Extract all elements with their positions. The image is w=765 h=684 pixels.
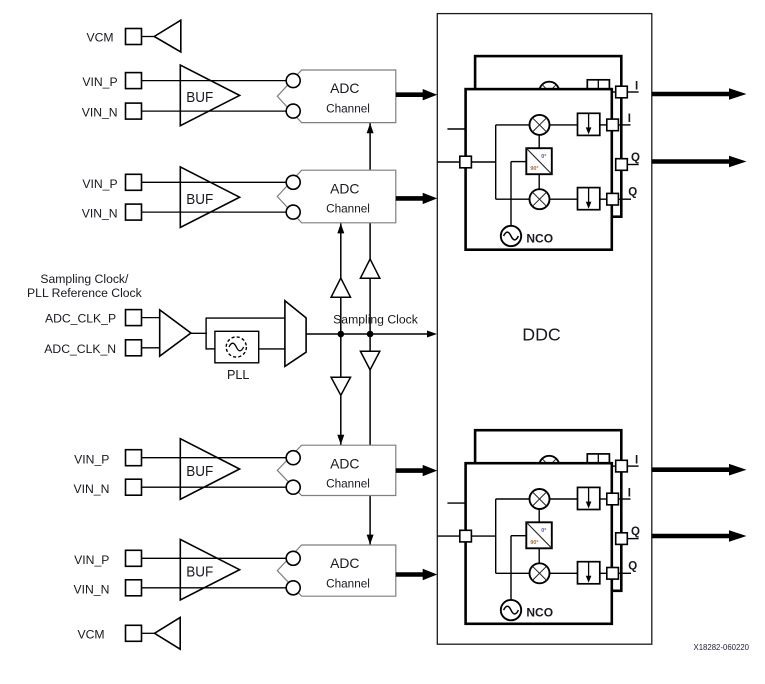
DDC bottom wire I mixer to filter — [550, 498, 578, 500]
thick arrow DDC Q out top — [652, 159, 731, 164]
DDC bottom I port square — [607, 493, 619, 505]
svg-text:0°: 0° — [541, 528, 546, 534]
wire VIN_P to ADC1 — [142, 80, 294, 82]
svg-text:VIN_P: VIN_P — [74, 553, 109, 567]
wire clock vertical net A (x=341) from ADC2 to ADC3 — [340, 223, 342, 445]
DDC top wire Q branch — [496, 198, 530, 200]
svg-text:VIN_P: VIN_P — [74, 452, 109, 466]
DDC top wire I filter to port — [600, 124, 607, 126]
ADC3 input circle N — [286, 480, 300, 494]
svg-text:BUF: BUF — [186, 463, 213, 480]
DDC top front channel box — [466, 89, 612, 250]
DDC bottom back Q port square — [616, 533, 628, 545]
svg-text:VIN_N: VIN_N — [73, 482, 109, 496]
DDC bottom wire I filter to port — [600, 498, 607, 500]
svg-text:X18282-060220: X18282-060220 — [694, 643, 750, 652]
DDC bottom back wire I out — [627, 465, 638, 467]
thick arrow ADC2 to DDC — [396, 196, 425, 201]
DDC bottom back channel input stub — [447, 502, 478, 504]
wire VCM top — [142, 36, 155, 38]
DDC outer box — [437, 14, 652, 645]
DDC bottom back I port square — [616, 460, 628, 472]
svg-text:ADC: ADC — [330, 181, 360, 196]
input pad square VIN_N 4 — [126, 580, 142, 596]
wire VIN_N to ADC4 — [142, 587, 294, 589]
clock buffer down triangle net A — [331, 377, 350, 395]
DDC top wire I branch — [496, 124, 530, 126]
thick arrow DDC I out top — [652, 92, 731, 97]
ADC1 input circle N — [286, 104, 300, 118]
DDC top I mixer — [530, 115, 550, 135]
ADC2 input circle N — [286, 205, 300, 219]
svg-text:ADC_CLK_P: ADC_CLK_P — [45, 312, 116, 326]
svg-text:PLL Reference Clock: PLL Reference Clock — [27, 286, 143, 300]
DDC top wire Q out — [618, 198, 631, 200]
DDC top Q port square — [607, 193, 619, 205]
svg-text:Q: Q — [628, 187, 637, 199]
DDC top wire I mixer to filter — [550, 124, 578, 126]
wire VIN_N to ADC1 — [142, 110, 294, 112]
svg-text:ADC: ADC — [330, 81, 360, 96]
DDC top back I filter — [587, 80, 609, 102]
buffer VCM bottom triangle — [155, 617, 181, 649]
svg-text:Sampling Clock/: Sampling Clock/ — [40, 272, 129, 286]
ADC channel 3 box — [277, 445, 396, 495]
mux clock select — [285, 301, 306, 367]
buffer clock input triangle — [160, 310, 191, 356]
input pad square VIN_P 2 — [126, 174, 142, 190]
DDC bottom back mixer — [539, 456, 559, 476]
thick arrow ADC3 to DDC — [396, 468, 425, 473]
svg-text:Channel: Channel — [326, 202, 370, 216]
buffer VCM top triangle — [154, 20, 181, 52]
DDC bottom wire phase to Q mixer — [538, 548, 540, 563]
wire VIN_N to ADC2 — [142, 211, 294, 213]
DDC bottom I mixer — [530, 489, 550, 509]
DDC top back wire I out — [627, 91, 638, 93]
buffer amplifier BUF4 — [180, 539, 239, 600]
junction dot A — [338, 331, 345, 338]
wire pll bypass top — [206, 317, 285, 319]
wire VIN_P to ADC4 — [142, 557, 294, 559]
thick arrow DDC I out bottom — [652, 467, 731, 472]
DDC bottom Q mixer — [530, 563, 550, 583]
DDC bottom wire I branch — [496, 498, 530, 500]
input pad square VCM top — [126, 29, 142, 45]
svg-text:90°: 90° — [530, 540, 538, 546]
svg-text:VIN_N: VIN_N — [82, 207, 118, 221]
DDC top wire Q filter to port — [600, 198, 607, 200]
wire into PLL — [206, 348, 215, 350]
DDC top back wire filter to I port — [609, 91, 615, 93]
svg-text:Q: Q — [628, 561, 637, 573]
svg-text:I: I — [635, 80, 638, 92]
svg-text:Q: Q — [631, 152, 640, 164]
input pad square VIN_P 3 — [126, 450, 142, 466]
DDC top back channel box — [475, 56, 621, 217]
DDC bottom wire Q out — [618, 572, 631, 574]
wire ADC_CLK_P — [142, 317, 160, 319]
svg-text:DDC: DDC — [522, 325, 561, 345]
input pad square VCM bottom — [126, 625, 142, 641]
svg-text:I: I — [628, 113, 631, 125]
wire VIN_P to ADC2 — [142, 181, 294, 183]
buffer amplifier BUF3 — [180, 439, 239, 500]
wire ADC_CLK_N — [142, 347, 160, 349]
svg-text:Q: Q — [631, 526, 640, 538]
DDC bottom wire Q branch — [496, 572, 530, 574]
DDC bottom I filter — [578, 487, 600, 509]
DDC bottom wire Q filter to port — [600, 572, 607, 574]
DDC top wire I out — [618, 124, 630, 126]
DDC top I port square — [607, 119, 619, 131]
wire pll bypass vertical — [205, 318, 207, 350]
svg-text:ADC: ADC — [330, 456, 360, 471]
thick arrow DDC Q out bottom — [652, 534, 731, 539]
DDC top back wire Q out — [627, 164, 638, 166]
DDC bottom front channel box — [466, 463, 612, 624]
svg-text:NCO: NCO — [526, 231, 553, 245]
svg-text:NCO: NCO — [526, 605, 553, 619]
input pad square VIN_P 1 — [126, 73, 142, 89]
svg-text:Channel: Channel — [326, 101, 370, 115]
DDC bottom wire Q mixer to filter — [550, 572, 578, 574]
PLL oscillator sine — [229, 343, 244, 351]
input pad square VIN_N 2 — [126, 204, 142, 220]
input pad square ADC_CLK_P — [126, 310, 142, 326]
wire VIN_N to ADC3 — [142, 486, 294, 488]
DDC bottom back I filter — [587, 454, 609, 476]
DDC bottom branch vertical — [495, 499, 497, 573]
DDC top I filter — [578, 113, 600, 135]
svg-text:VIN_P: VIN_P — [82, 75, 117, 89]
DDC bottom phase splitter box — [526, 522, 552, 548]
DDC bottom NCO oscillator — [501, 600, 521, 620]
DDC top wire NCO vertical — [510, 162, 512, 226]
DDC top NCO oscillator — [501, 226, 521, 246]
DDC top back I port square — [616, 86, 628, 98]
svg-text:BUF: BUF — [186, 564, 213, 581]
wire VCM bottom — [142, 632, 155, 634]
svg-text:ADC_CLK_N: ADC_CLK_N — [44, 342, 116, 356]
DDC bottom back wire filter to I port — [609, 465, 615, 467]
wire sampling clock net — [306, 333, 429, 335]
DDC bottom wire NCO to phase box — [511, 535, 526, 537]
DDC bottom back channel box — [475, 430, 621, 591]
DDC top input port square — [460, 156, 472, 168]
clock buffer up triangle net A — [331, 278, 350, 297]
DDC top Q filter — [578, 188, 600, 210]
arrowhead clock into ADC4 — [367, 535, 374, 545]
svg-text:BUF: BUF — [186, 89, 213, 106]
DDC top wire NCO to phase box — [511, 161, 526, 163]
svg-text:90°: 90° — [530, 166, 538, 172]
DDC top wire input — [437, 161, 495, 163]
DDC bottom Q port square — [607, 568, 619, 580]
DDC bottom wire NCO vertical — [510, 536, 512, 600]
input pad square ADC_CLK_N — [126, 340, 142, 356]
input pad square VIN_N 3 — [126, 479, 142, 495]
DDC top back channel input stub — [447, 128, 478, 130]
ADC4 input circle P — [286, 551, 300, 565]
svg-text:VIN_N: VIN_N — [73, 582, 109, 596]
ADC channel 4 box — [277, 545, 396, 596]
wire clock vertical net B (x=370) from ADC1 to ADC4 — [369, 123, 371, 545]
ADC4 input circle N — [286, 581, 300, 595]
ADC1 input circle P — [286, 74, 300, 88]
DDC top Q mixer — [530, 189, 550, 209]
clock buffer down triangle net B — [360, 351, 379, 370]
ADC channel 1 box — [277, 70, 396, 123]
svg-text:VIN_N: VIN_N — [82, 106, 118, 120]
svg-text:VCM: VCM — [87, 31, 114, 45]
ADC channel 2 box — [277, 170, 396, 223]
thick arrow ADC4 to DDC — [396, 572, 425, 577]
svg-text:VIN_P: VIN_P — [82, 177, 117, 191]
svg-text:ADC: ADC — [330, 556, 360, 571]
svg-text:I: I — [628, 487, 631, 499]
DDC bottom Q filter — [578, 562, 600, 584]
svg-text:PLL: PLL — [227, 368, 249, 382]
DDC top back Q port square — [616, 159, 628, 171]
junction dot B — [367, 331, 374, 338]
DDC top wire phase to I mixer — [538, 135, 540, 148]
arrowhead sampling clock into DDC — [427, 331, 437, 338]
svg-text:I: I — [635, 455, 638, 467]
DDC bottom back wire Q out — [627, 538, 638, 540]
buffer amplifier BUF1 — [180, 65, 239, 126]
buffer amplifier BUF2 — [180, 167, 239, 228]
PLL box — [215, 331, 259, 363]
DDC bottom wire input — [437, 535, 495, 537]
input pad square VIN_N 1 — [126, 103, 142, 119]
wire clock buffer output — [191, 332, 207, 334]
DDC top wire phase to Q mixer — [538, 174, 540, 189]
svg-text:VCM: VCM — [78, 627, 105, 641]
svg-text:Sampling Clock: Sampling Clock — [333, 313, 419, 327]
ADC3 input circle P — [286, 451, 300, 465]
svg-text:Channel: Channel — [326, 477, 370, 491]
DDC bottom wire I out — [618, 498, 630, 500]
thick arrow ADC1 to DDC — [396, 92, 425, 97]
svg-text:BUF: BUF — [186, 191, 213, 208]
DDC bottom wire phase to I mixer — [538, 509, 540, 522]
DDC bottom input port square — [460, 530, 472, 542]
arrowhead clock into ADC3 — [337, 435, 344, 445]
DDC top back mixer — [539, 82, 559, 102]
arrowhead clock into ADC1 — [367, 123, 374, 133]
ADC2 input circle P — [286, 175, 300, 189]
input pad square VIN_P 4 — [126, 550, 142, 566]
DDC top phase splitter box — [526, 148, 552, 174]
arrowhead clock into ADC2 — [337, 223, 344, 233]
DDC top branch vertical — [495, 125, 497, 199]
svg-text:0°: 0° — [541, 154, 546, 160]
DDC top wire Q mixer to filter — [550, 198, 578, 200]
svg-text:Channel: Channel — [326, 576, 370, 590]
wire VIN_P to ADC3 — [142, 457, 294, 459]
wire PLL output — [259, 348, 285, 350]
clock buffer up triangle net B — [360, 259, 379, 278]
PLL oscillator circle — [226, 337, 246, 357]
